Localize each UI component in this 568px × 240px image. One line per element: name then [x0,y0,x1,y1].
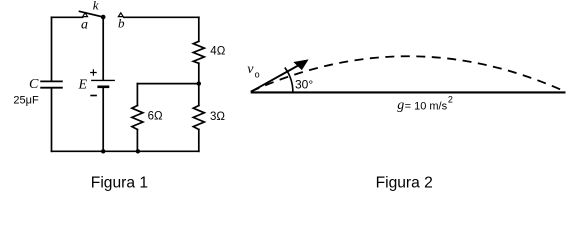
svg-text:Figura 1: Figura 1 [91,175,148,192]
svg-text:6Ω: 6Ω [148,111,163,123]
svg-text:25μF: 25μF [13,95,39,107]
svg-text:4Ω: 4Ω [210,46,225,58]
svg-text:b: b [118,16,125,31]
svg-text:a: a [81,18,88,33]
svg-text:Figura 2: Figura 2 [376,175,433,192]
svg-text:k: k [93,0,99,13]
svg-text:30°: 30° [295,78,313,92]
svg-text:E: E [78,78,88,93]
svg-text:v: v [247,62,254,77]
svg-text:3Ω: 3Ω [210,111,225,123]
svg-text:2: 2 [448,95,453,105]
svg-text:C: C [29,77,39,92]
svg-text:g: g [397,98,404,113]
svg-text:= 10 m/s: = 10 m/s [405,100,448,112]
svg-text:o: o [255,70,260,80]
